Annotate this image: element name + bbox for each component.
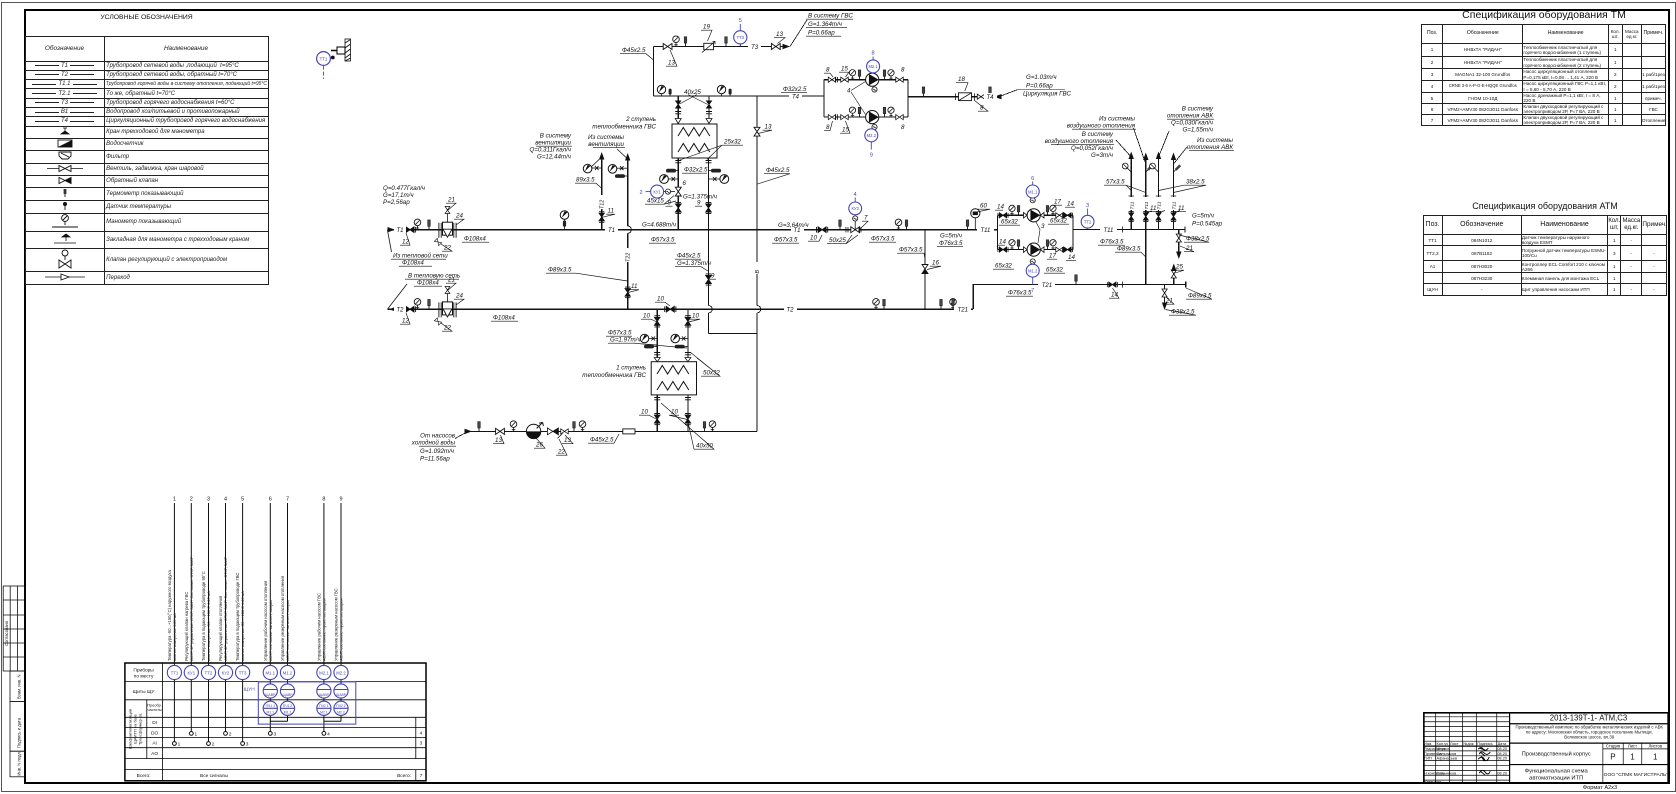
- pump starter M1.1 circle: [1026, 176, 1039, 198]
- thermowell capsule on riser T22: [615, 174, 628, 178]
- pipe hop T22 over T1: [628, 226, 632, 233]
- svg-text:17: 17: [1049, 253, 1056, 260]
- thermometer with cock on T4 header right: [717, 85, 725, 96]
- pipe T21 drain branch: [1164, 285, 1166, 303]
- legend header: [25, 14, 268, 21]
- sensor TT3 circle on T3: [734, 18, 747, 47]
- air vent valve 21 on T21 drain: [1162, 289, 1167, 297]
- svg-text:Температура в подающем трубопр: Температура в подающем трубопроводе 95°С: [201, 571, 206, 661]
- svg-text:Управление рабочим насосом ГВС: Управление рабочим насосом ГВС: [316, 593, 321, 661]
- thermowell on T4 circulation left: [922, 87, 925, 97]
- svg-text:1: 1: [173, 497, 176, 503]
- svg-text:аналог. измерение -50...+150: аналог. измерение -50...+150 С 4-20 мА: [207, 591, 211, 661]
- svg-text:отопления АВК: отопления АВК: [1167, 113, 1213, 120]
- svg-text:11: 11: [1178, 205, 1184, 212]
- thermowell after valve B1: [573, 422, 576, 432]
- pipe HX2 primary drop to T1: [677, 158, 679, 230]
- gate valve 10 on HX1 outlet left: [654, 414, 660, 425]
- thermowell mid T1: [563, 221, 566, 227]
- svg-text:Ф45х2.5: Ф45х2.5: [766, 167, 790, 174]
- svg-text:P=11.56ар: P=11.56ар: [420, 456, 450, 463]
- manometer with cock HX1 right: [671, 334, 688, 343]
- gate valve riser 3: [1156, 211, 1161, 221]
- gate valve 9 on HX2 right drop lower: [706, 274, 712, 285]
- valve 13 on T3 outlet: [771, 44, 780, 50]
- manometer on T2 right: [873, 299, 880, 310]
- svg-text:ПЧ1.1: ПЧ1.1: [266, 704, 276, 708]
- thermowell heating upper discharge: [1046, 206, 1049, 216]
- svg-text:Ф89х3.5: Ф89х3.5: [548, 267, 572, 274]
- valve 8 GVS lower discharge: [896, 115, 903, 120]
- gate valve 12 on T1: [404, 227, 415, 233]
- svg-text:10: 10: [810, 235, 817, 242]
- manometer after valve B1: [579, 421, 586, 432]
- svg-text:9: 9: [339, 497, 342, 503]
- flange pair HX2 top right: [706, 112, 712, 114]
- svg-text:21: 21: [447, 277, 455, 284]
- thermowell B1 right: [703, 422, 706, 432]
- manometer with cock HX2 left drop: [660, 175, 679, 184]
- svg-text:8: 8: [901, 124, 905, 131]
- DO/AI terminal dots: [173, 732, 326, 746]
- pipe GVS pump lower branch: [824, 116, 908, 118]
- heat exchanger HX1 (1st stage DHW): [651, 362, 696, 395]
- svg-text:Ф57х3.5: Ф57х3.5: [651, 237, 675, 244]
- thermowell GVS lower discharge: [883, 107, 886, 117]
- svg-text:Ф57х3.5: Ф57х3.5: [899, 247, 923, 254]
- pipe HX2 top connection right: [708, 96, 710, 124]
- check valve 16 on bypass: [922, 265, 928, 274]
- svg-text:DO: DO: [151, 730, 158, 736]
- svg-text:8: 8: [322, 497, 325, 503]
- pump M2.2: [866, 111, 879, 124]
- svg-text:65х32: 65х32: [1001, 219, 1018, 226]
- pipe ABK heating riser 3: [1158, 158, 1160, 230]
- svg-text:G=17,1т/ч: G=17,1т/ч: [383, 192, 414, 199]
- svg-text:Инв. N подл.: Инв. N подл.: [17, 751, 22, 776]
- B1 inlet arrow: [465, 429, 473, 434]
- svg-text:14: 14: [999, 239, 1006, 246]
- manometer with cock HX2 right drop: [709, 175, 729, 184]
- strainer 24 on T1: [439, 222, 456, 238]
- svg-text:Q=0,052Гкал/ч: Q=0,052Гкал/ч: [1071, 145, 1114, 152]
- svg-text:В систему ГВС: В систему ГВС: [808, 13, 853, 20]
- svg-text:Т3: Т3: [751, 45, 759, 51]
- svg-text:АСУР, состояние: пуск/стоп, ав: АСУР, состояние: пуск/стоп, авария: [340, 598, 344, 661]
- svg-text:частоты: частоты: [148, 708, 162, 712]
- pipe riser T3-T4 left drop: [653, 47, 655, 97]
- pipe T3 DHW supply header: [654, 46, 789, 48]
- ATM spec title: [1423, 201, 1667, 211]
- svg-text:воздушного отопления: воздушного отопления: [1067, 123, 1136, 130]
- svg-text:Т1: Т1: [608, 228, 615, 234]
- svg-text:ПЧ2.2: ПЧ2.2: [336, 704, 346, 708]
- gate valve 10 on HX1 inlet left: [654, 316, 660, 327]
- svg-text:М1.1: М1.1: [267, 710, 275, 714]
- svg-text:89х3.5: 89х3.5: [576, 177, 595, 184]
- gate valve 10 on HX1 inlet right: [685, 316, 691, 327]
- gate valve 10 on HX1 outlet right: [685, 414, 691, 425]
- outdoor temperature sensor TT1 wall bracket: [331, 39, 351, 61]
- legend table: [25, 36, 269, 286]
- thermowell heating lower discharge: [1046, 240, 1049, 250]
- svg-text:ЩУН: ЩУН: [244, 686, 256, 692]
- flange GVS lower: [835, 114, 837, 119]
- svg-text:В систему: В систему: [540, 133, 572, 140]
- signal vertical wires: [174, 503, 341, 744]
- svg-text:Всего:: Всего:: [397, 773, 411, 779]
- water meter 60 stem: [974, 218, 976, 230]
- pipe T4 circulation return: [908, 96, 996, 98]
- svg-text:ТТ2: ТТ2: [1084, 220, 1092, 225]
- svg-text:24: 24: [455, 293, 463, 300]
- svg-text:ТТ2: ТТ2: [205, 670, 213, 675]
- svg-text:3: 3: [207, 497, 210, 503]
- thermowell on T1 inlet: [428, 220, 431, 230]
- svg-text:Циркуляция ГВС: Циркуляция ГВС: [1023, 91, 1071, 98]
- thermowell B1 inlet: [478, 422, 481, 432]
- svg-text:10: 10: [671, 409, 678, 416]
- svg-text:М2.2: М2.2: [337, 710, 345, 714]
- svg-text:Ф108х4: Ф108х4: [464, 236, 486, 243]
- thermowell before pumps T11: [966, 220, 969, 230]
- thermowell on T3 after valve: [725, 37, 728, 47]
- thermometer riser 1: [1122, 163, 1131, 172]
- svg-text:3: 3: [274, 732, 277, 738]
- water meter 60 on T11: [971, 209, 980, 218]
- svg-text:21: 21: [1165, 298, 1173, 305]
- ball valve HX2 top right: [706, 101, 711, 108]
- svg-text:М1.1: М1.1: [266, 670, 276, 675]
- svg-text:Ф108х4: Ф108х4: [493, 315, 515, 322]
- svg-text:13: 13: [765, 124, 772, 131]
- svg-text:15: 15: [841, 66, 848, 73]
- actuator link KU1: [664, 191, 675, 193]
- MAINSCHEMA: [387, 20, 1187, 439]
- manometer heating upper discharge: [1050, 205, 1056, 215]
- svg-text:Из системы: Из системы: [1099, 116, 1135, 123]
- svg-text:38х2.5: 38х2.5: [1186, 179, 1205, 186]
- vent riser T12 leader: [588, 157, 602, 170]
- svg-text:4: 4: [420, 730, 423, 736]
- svg-text:Ф76х3.5: Ф76х3.5: [1100, 239, 1124, 246]
- vent riser T22 arrow up: [625, 153, 630, 161]
- pipe B1 inlet leader: [455, 431, 468, 438]
- solenoid valve 19 on T3: [702, 42, 715, 53]
- svg-text:В систему: В систему: [1082, 131, 1114, 138]
- svg-text:воздушного отопления: воздушного отопления: [1045, 138, 1114, 145]
- svg-text:Т11: Т11: [1157, 201, 1163, 209]
- signal table grid: [125, 663, 426, 781]
- svg-text:19: 19: [703, 24, 710, 31]
- manometer on T3: [673, 36, 680, 47]
- svg-text:11: 11: [1150, 205, 1156, 212]
- arrow riser 1: [1129, 152, 1134, 160]
- svg-text:3: 3: [1086, 203, 1089, 209]
- air vent valve on T11 drain: [1176, 234, 1181, 242]
- svg-text:1: 1: [178, 742, 181, 748]
- thermowell on T3: [684, 37, 687, 47]
- svg-text:Из тепловой сети: Из тепловой сети: [393, 253, 448, 260]
- svg-text:М2.1: М2.1: [868, 64, 878, 69]
- ATM spec table: [1423, 215, 1667, 296]
- svg-text:11: 11: [608, 208, 614, 215]
- thermowell heating lower suction: [1017, 240, 1020, 250]
- svg-text:М2.2: М2.2: [867, 133, 877, 138]
- svg-text:Преобр.: Преобр.: [147, 704, 161, 708]
- svg-text:вентиляции: вентиляции: [588, 141, 624, 148]
- pipe vent supply riser T12: [601, 155, 603, 230]
- svg-text:8: 8: [901, 67, 905, 74]
- svg-text:ТТ3: ТТ3: [737, 35, 745, 40]
- pipe T21 air vent branch: [1173, 266, 1175, 285]
- T1 inlet arrow: [388, 227, 396, 232]
- pipe HX1 outlet to B1 left: [656, 395, 658, 432]
- pipe B1 riser to T4: [756, 96, 758, 431]
- svg-text:P=0.66ар: P=0.66ар: [808, 30, 835, 37]
- heat exchanger HX2 (2nd stage DHW): [672, 124, 717, 158]
- svg-text:24: 24: [455, 213, 463, 220]
- flow destination texts: [383, 13, 1233, 463]
- pipe HX2 top connection left: [677, 96, 679, 124]
- svg-text:М2.1: М2.1: [320, 710, 328, 714]
- svg-text:25: 25: [1175, 264, 1183, 271]
- svg-text:G=1.092т/ч: G=1.092т/ч: [420, 448, 455, 455]
- svg-text:От насосов: От насосов: [420, 433, 456, 440]
- svg-text:Ф57х3.5: Ф57х3.5: [774, 237, 798, 244]
- pipe T11 drain branch: [1178, 230, 1180, 253]
- svg-text:G=1.03т/ч: G=1.03т/ч: [1026, 74, 1057, 81]
- manometer GVS lower suction: [849, 107, 855, 117]
- air vent valve 25 on T21: [1171, 270, 1176, 278]
- manometer on B1: [510, 421, 517, 432]
- pipe heating pump left manifold: [997, 215, 999, 249]
- thermowell heating upper suction: [1017, 206, 1020, 216]
- svg-text:8: 8: [872, 51, 875, 57]
- thermometer with cock on riser T22: [608, 165, 628, 174]
- svg-text:ТТ1: ТТ1: [320, 56, 328, 61]
- strainer 24 on T2: [439, 302, 456, 318]
- panel circles row 2: [263, 684, 348, 698]
- svg-text:Q=0,311Гкал/ч: Q=0,311Гкал/ч: [529, 147, 571, 154]
- motor symbol M1.1: [1030, 198, 1035, 203]
- svg-text:4: 4: [853, 192, 856, 198]
- blue panel frame ЩУН: [244, 682, 356, 724]
- svg-text:10: 10: [657, 296, 664, 303]
- svg-text:3: 3: [1041, 223, 1045, 230]
- svg-text:вентиляции: вентиляции: [535, 140, 571, 147]
- valve 11 on riser T22: [625, 287, 630, 298]
- reducer flag heating lower left: [1024, 247, 1028, 253]
- svg-text:Из системы: Из системы: [1197, 137, 1233, 144]
- dimension labels with underline: [402, 24, 1212, 456]
- flange pair riser 4: [1171, 196, 1176, 198]
- svg-text:отопления АВК: отопления АВК: [1187, 144, 1233, 151]
- T4 circulation arrow: [994, 94, 1002, 99]
- svg-text:17: 17: [1054, 199, 1061, 206]
- svg-text:Ф32х2.5: Ф32х2.5: [684, 167, 708, 174]
- orifice insert on B1: [623, 429, 635, 434]
- pump M2.1: [866, 73, 879, 86]
- thermowell capsule HX2 right drop: [709, 169, 722, 173]
- svg-text:4: 4: [327, 732, 330, 738]
- arrow riser 2: [1143, 153, 1148, 161]
- pump starter M1.2 circle: [1026, 264, 1039, 294]
- svg-text:10: 10: [692, 313, 699, 320]
- sensor TT1 circle: [317, 52, 331, 79]
- svg-text:аналог. измерение 4-20 мА: аналог. измерение 4-20 мА: [173, 613, 177, 661]
- pipe HX1 outlet to B1 right: [687, 395, 689, 432]
- gate valve 12 on T2: [404, 306, 415, 312]
- svg-text:Т21: Т21: [958, 308, 968, 314]
- arrow riser 4: [1171, 153, 1176, 161]
- pipe heating pump right manifold: [1072, 215, 1074, 249]
- manometer B1 right: [709, 421, 716, 432]
- svg-text:АСУР, состояние: включен, авар: АСУР, состояние: включен, авария: [269, 600, 273, 661]
- controller KU2 circle: [849, 192, 862, 215]
- flange pair riser 2: [1143, 196, 1148, 198]
- svg-text:М2.1: М2.1: [319, 670, 329, 675]
- svg-text:7: 7: [1031, 288, 1034, 294]
- T1 inlet leader: [387, 230, 391, 252]
- svg-text:4: 4: [224, 497, 227, 503]
- thermowell after KU2: [905, 220, 908, 230]
- svg-text:Ф108х4: Ф108х4: [417, 280, 439, 287]
- svg-text:21: 21: [447, 197, 455, 204]
- valve 17 heating lower: [1056, 247, 1063, 252]
- svg-text:9: 9: [870, 153, 873, 159]
- svg-text:М1.2: М1.2: [283, 670, 293, 675]
- T21 drain arrow: [1162, 303, 1167, 311]
- svg-text:G=1.364т/ч: G=1.364т/ч: [808, 21, 843, 28]
- thermowell capsule HX2 left drop: [666, 169, 678, 173]
- svg-text:25х32: 25х32: [723, 139, 741, 146]
- svg-text:8: 8: [826, 67, 830, 74]
- left attachment strip: approval grid: [3, 586, 25, 777]
- svg-text:3: 3: [420, 741, 423, 747]
- svg-text:Т1: Т1: [396, 228, 403, 234]
- svg-text:Ф45х2.5: Ф45х2.5: [677, 253, 701, 260]
- svg-text:Ф45х2.5: Ф45х2.5: [590, 437, 614, 444]
- manometer with cock HX1 left: [640, 334, 657, 343]
- svg-text:57х3.5: 57х3.5: [1106, 179, 1125, 186]
- svg-text:М1.1: М1.1: [1028, 189, 1038, 194]
- pipe heating pump lower branch: [998, 249, 1074, 251]
- svg-text:7: 7: [286, 497, 289, 503]
- svg-text:4: 4: [847, 88, 851, 95]
- svg-text:G=1.375т/ч: G=1.375т/ч: [677, 260, 712, 267]
- svg-text:14: 14: [1068, 254, 1075, 261]
- svg-text:14: 14: [997, 204, 1004, 211]
- svg-text:5: 5: [739, 18, 742, 24]
- flange pair HX2 top left: [675, 112, 681, 114]
- circulation device 18: [956, 93, 975, 101]
- svg-text:P=0.66ар: P=0.66ар: [1026, 83, 1053, 90]
- riser 11 leader lines: [1146, 211, 1180, 214]
- svg-text:В систему: В систему: [1182, 106, 1214, 113]
- valve 13-22 on B1: [558, 429, 569, 439]
- svg-text:Подпись и дата: Подпись и дата: [17, 717, 22, 748]
- svg-text:ЩАВР: ЩАВР: [283, 693, 294, 697]
- svg-text:G=4.688т/ч: G=4.688т/ч: [642, 222, 677, 229]
- thermowell on T2 outlet: [428, 299, 431, 309]
- pipe ABK heating riser 4: [1173, 159, 1175, 230]
- svg-text:Ф108х4: Ф108х4: [402, 260, 424, 267]
- reducer flag heating upper left: [1024, 213, 1028, 219]
- pipe air heating riser 1: [1130, 158, 1132, 230]
- svg-text:2: 2: [212, 742, 215, 748]
- T3 outlet arrow: [783, 44, 791, 49]
- T21 air vent arrow up: [1171, 264, 1176, 272]
- pipe hop HX2 drop over T2: [709, 306, 713, 313]
- svg-text:50х32: 50х32: [703, 370, 720, 377]
- tick on T11: [1122, 227, 1124, 233]
- thermometer riser 3: [1150, 163, 1159, 172]
- svg-text:G=3т/ч: G=3т/ч: [1091, 152, 1114, 159]
- regulating valve KU2 with actuator: [851, 221, 860, 233]
- underlines for flow texts: [391, 19, 1234, 446]
- flange pair HX1 bottom right: [685, 398, 691, 400]
- thermowell before KU2: [839, 220, 842, 230]
- svg-text:АСУР, состояние: включен, авар: АСУР, состояние: включен, авария: [286, 600, 290, 661]
- thermowell GVS upper suction: [858, 70, 861, 80]
- FORMAT: [1560, 785, 1640, 791]
- svg-text:Приборы: Приборы: [133, 668, 154, 674]
- svg-text:6: 6: [269, 497, 272, 503]
- svg-text:КУ1: КУ1: [187, 670, 195, 675]
- svg-text:Все сигналы: Все сигналы: [200, 773, 229, 779]
- valve 14 heating upper suction: [998, 213, 1008, 218]
- freq converter circles row 3: [263, 701, 348, 715]
- svg-text:ПЧ2.1: ПЧ2.1: [319, 704, 329, 708]
- svg-text:P=2,56ар: P=2,56ар: [383, 199, 410, 206]
- svg-text:6: 6: [683, 180, 687, 187]
- svg-text:Т21: Т21: [1042, 283, 1052, 289]
- drain valve 22 T2: [434, 318, 441, 325]
- pipe HX1 inlet from T2 left: [656, 309, 658, 362]
- tick on T21: [1122, 282, 1124, 288]
- svg-text:1: 1: [195, 732, 198, 738]
- svg-text:Q=0,030Гкал/ч: Q=0,030Гкал/ч: [1171, 120, 1214, 127]
- reducer flag heating upper right: [1041, 213, 1045, 219]
- svg-text:1 ступень: 1 ступень: [616, 365, 646, 372]
- thermowell on T2 far right: [940, 299, 943, 309]
- valve 14 heating lower suction: [998, 247, 1008, 252]
- svg-text:ЩАВР: ЩАВР: [265, 693, 276, 697]
- gate valve 14 on T21: [1107, 282, 1117, 287]
- pipe T4 mixing header: [654, 95, 825, 97]
- manometer heating lower suction: [1009, 240, 1015, 250]
- svg-text:Из системы: Из системы: [588, 134, 624, 141]
- pipe T1 main supply: [387, 229, 997, 231]
- manometer GVS upper discharge: [888, 70, 894, 80]
- flange pair HX1 top right: [685, 353, 691, 355]
- vent riser T22 leader: [617, 149, 628, 159]
- svg-text:G=5т/ч: G=5т/ч: [940, 233, 963, 240]
- motor KU1: [665, 189, 670, 194]
- valve 14 heating upper discharge: [1062, 213, 1072, 218]
- svg-text:Т4: Т4: [792, 95, 800, 101]
- svg-text:P=0.545ар: P=0.545ар: [1192, 221, 1223, 228]
- svg-text:КУ2: КУ2: [222, 670, 230, 675]
- svg-text:ЩАВР: ЩАВР: [336, 693, 347, 697]
- valve 8 GVS upper suction: [828, 77, 835, 82]
- svg-text:Т4: Т4: [986, 95, 994, 101]
- svg-text:ТТ3: ТТ3: [239, 670, 247, 675]
- gate valve 10 on T1 at KU2: [817, 227, 828, 233]
- svg-text:Ф76х3.5: Ф76х3.5: [939, 240, 963, 247]
- pipe hop B1 riser over T2: [757, 306, 761, 313]
